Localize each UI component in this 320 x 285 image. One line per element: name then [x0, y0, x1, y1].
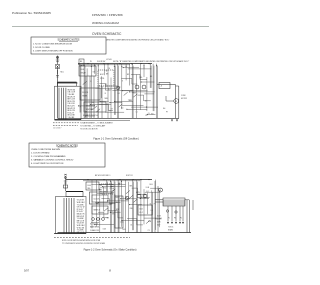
- figure 2 switch contact: [129, 195, 133, 198]
- figure 2 wire label Y: [118, 182, 121, 185]
- figure 2 node junction: [122, 220, 123, 221]
- figure 1 node junction: [121, 66, 122, 67]
- figure 1 node junction: [126, 109, 127, 110]
- figure 2 wire: [107, 182, 109, 193]
- svg-text:MDL: MDL: [105, 98, 108, 100]
- figure 1 node junction: [106, 86, 107, 87]
- EOC pin leads figure 2: [168, 206, 183, 222]
- figure 1 wire: [147, 114, 155, 116]
- figure 1 wire: [86, 115, 95, 117]
- figure 1 node junction: [150, 63, 151, 64]
- figure 2 node junction: [98, 202, 99, 203]
- figure 2 wire: [114, 182, 116, 233]
- terminal arrows figure 1: [171, 120, 178, 122]
- notes box 2 line 5: [31, 163, 64, 165]
- bottom note row 2 figure 2: [62, 242, 106, 245]
- figure 1 wire label BA: [105, 98, 108, 100]
- svg-text:NOTE: “B” DENOTES COMPONENTS M: NOTE: “B” DENOTES COMPONENTS MOUNTED ON …: [113, 60, 189, 63]
- figure 1 node junction: [100, 101, 101, 102]
- figure 1 wire: [97, 64, 99, 119]
- figure 2 node junction: [110, 181, 111, 182]
- figure 1 wire label LS: [91, 109, 94, 111]
- svg-text:8-4: 8-4: [92, 102, 94, 104]
- figure 2 node junction: [110, 186, 111, 187]
- figure 1 wire: [127, 108, 147, 110]
- figure 2 node junction: [140, 198, 141, 199]
- figure 1 wire label 8-4: [117, 93, 119, 95]
- figure 2 node junction: [99, 189, 100, 190]
- relay coil K3 figure 1: [142, 85, 146, 89]
- wire bottom bus figure 2: [58, 232, 192, 234]
- motor leads figure 1: [166, 96, 174, 101]
- figure 2 wire: [132, 182, 134, 231]
- figure 1 wire: [106, 85, 118, 87]
- figure 2 wire: [136, 182, 138, 233]
- figure 2 wire label P5: [148, 230, 150, 232]
- switch box figure 1: [84, 102, 106, 112]
- figure 1 node junction: [84, 65, 85, 66]
- figure 1 wire: [131, 64, 133, 119]
- figure 2 node junction: [120, 198, 121, 199]
- svg-text:Figure 1-1 Oven Schematic (Of: Figure 1-1 Oven Schematic (Off Condition…: [93, 138, 138, 141]
- figure 1 wire label V: [108, 68, 110, 70]
- figure 2 node junction: [141, 197, 142, 198]
- figure 2 wire label BU: [120, 183, 122, 185]
- door lock column figure 2: [115, 196, 123, 228]
- wire bottom bus figure 1: [55, 118, 180, 120]
- figure 2 wire label HSW: [95, 203, 99, 205]
- figure 1 wire: [118, 66, 120, 119]
- figure 1 wire label R: [132, 93, 136, 95]
- top labels row figure 2: [95, 175, 134, 177]
- figure 1 wire label 8-4: [127, 74, 130, 76]
- figure 1 node junction: [85, 116, 86, 117]
- figure 1 node junction: [141, 82, 142, 83]
- node bus junctions figure 2: [87, 179, 149, 180]
- svg-text:P1: P1: [168, 218, 170, 220]
- svg-text:TO EOC: TO EOC: [168, 227, 173, 229]
- figure 1 switch contact: [93, 106, 97, 109]
- figure 1 wire: [110, 78, 112, 119]
- svg-text:DLB: DLB: [103, 229, 106, 231]
- notes box 2 line 1: [31, 149, 60, 151]
- figure 2 switch contact: [104, 208, 108, 211]
- svg-text:DLB: DLB: [115, 197, 118, 199]
- figure 2 wire: [108, 200, 129, 202]
- svg-text:“B” COMPONENTS MOUNTED ON PRIN: “B” COMPONENTS MOUNTED ON PRINTED CIRCUI…: [62, 242, 106, 245]
- figure 2 switch contact: [146, 220, 150, 223]
- bottom wire labels mid figure 1: [80, 121, 113, 130]
- harness collar figure 1: [58, 82, 77, 86]
- svg-text:2. COOKING TIME PROGRAMMED: 2. COOKING TIME PROGRAMMED: [31, 155, 66, 158]
- svg-text:8-2 BK: 8-2 BK: [157, 218, 161, 220]
- figure 2 wire: [95, 224, 114, 226]
- svg-text:GY: GY: [111, 108, 114, 110]
- clock terminal labels figure 2: [90, 224, 100, 232]
- pilot circle B figure 2: [175, 211, 177, 213]
- figure 1 wire: [156, 66, 158, 119]
- svg-text:TO CONV FAN — TO OVEN LAMP: TO CONV FAN — TO OVEN LAMP: [80, 125, 105, 128]
- svg-text:WIRING DIAGRAM: WIRING DIAGRAM: [92, 21, 119, 25]
- svg-text:W: W: [90, 61, 92, 63]
- svg-text:RELAY: RELAY: [81, 72, 87, 75]
- figure 1 wire label L1: [128, 100, 132, 102]
- figure 1 wire: [122, 104, 144, 106]
- svg-text:OL: OL: [148, 113, 150, 115]
- figure 1 wire label GY: [86, 115, 88, 117]
- figure 2 wire: [128, 182, 130, 233]
- figure 1 wire: [94, 64, 96, 74]
- svg-text:N: N: [105, 93, 107, 95]
- figure 2 wire: [147, 193, 149, 215]
- figure 2 wire label GY: [148, 221, 151, 223]
- figure 1 switch contact: [124, 92, 128, 95]
- figure 1 node junction: [146, 107, 147, 108]
- svg-text:OVEN SCHEMATIC: OVEN SCHEMATIC: [92, 32, 122, 36]
- figure 2 wire: [151, 190, 153, 232]
- figure 1 wire: [84, 66, 86, 119]
- figure 1 node junction: [129, 91, 130, 92]
- figure 1 wire: [100, 76, 102, 98]
- control board box figure 1: [98, 70, 114, 86]
- svg-text:L1 N B: L1 N B: [106, 59, 112, 61]
- node L1 junction figure 1: [57, 82, 58, 83]
- right labels figure 2: [168, 227, 173, 232]
- wire top bus figure 2: [66, 180, 152, 181]
- schematic notes box 1: [31, 37, 106, 54]
- svg-text:REL: REL: [96, 203, 99, 205]
- figure 1 wire label MDL: [118, 87, 121, 89]
- svg-text:N B TCO: N B TCO: [126, 175, 134, 177]
- svg-text:BK W DOOR SW L1: BK W DOOR SW L1: [95, 175, 110, 177]
- relay contact box figure 2: [138, 205, 152, 215]
- figure 2 wire label DLB: [115, 197, 118, 199]
- svg-text:BK: BK: [80, 61, 83, 63]
- figure 2 wire: [145, 191, 161, 193]
- notes box 1 title: [58, 39, 80, 42]
- figure 1 harness wires: [59, 88, 66, 120]
- figure 2 wire: [113, 180, 115, 233]
- figure 1 node junction: [126, 66, 127, 67]
- figure 2 wire: [122, 220, 144, 222]
- svg-text:B: B: [160, 190, 161, 192]
- svg-text:3. VARIABLE COOKING CONTROL “B: 3. VARIABLE COOKING CONTROL “BROIL”: [31, 158, 74, 161]
- figure 2 switch contact: [111, 189, 115, 192]
- figure 2 wire: [142, 196, 150, 198]
- pilot lamp 2 figure 2: [97, 218, 100, 221]
- svg-text:CLEAN OFF: CLEAN OFF: [90, 229, 99, 232]
- figure 2 wire label BK: [122, 229, 125, 231]
- right bus pair figure 2: [185, 200, 193, 233]
- figure 1 switch contact: [83, 81, 87, 84]
- svg-text:DR: DR: [85, 111, 88, 113]
- figure 1 wire label P5: [106, 70, 108, 72]
- svg-text:5/97: 5/97: [24, 268, 30, 272]
- svg-text:P1: P1: [110, 188, 112, 190]
- figure 2 wire label V: [120, 222, 124, 224]
- figure 1 wire label P5: [144, 68, 146, 70]
- figure 2 node junction: [107, 200, 108, 201]
- right labels figure 1: [163, 95, 188, 113]
- wire L1 vertical figure 1: [57, 66, 59, 118]
- wire drop 4 figure 1: [97, 86, 99, 118]
- figure 1 switch contact: [119, 104, 123, 107]
- wire link to EOC figure 2: [155, 200, 163, 202]
- pilot circle A figure 2: [166, 210, 168, 212]
- figure 1 wire: [80, 66, 82, 113]
- figure 2 wire label DLB: [112, 211, 114, 213]
- figure 1 switch contact: [133, 94, 137, 97]
- figure 1 wire: [125, 64, 127, 81]
- figure 1 wire: [152, 64, 154, 112]
- svg-text:EOC: EOC: [103, 188, 107, 190]
- figure 1 wire: [131, 74, 147, 79]
- svg-text:8-6: 8-6: [163, 108, 165, 110]
- svg-text:4. LIGHT SWITCH ON POSITION: 4. LIGHT SWITCH ON POSITION: [31, 163, 64, 165]
- figure 1 wire: [100, 100, 109, 102]
- svg-text:CLOCK: CLOCK: [82, 92, 89, 94]
- figure 2 wire label MDL: [150, 184, 153, 186]
- figure 1 node junction: [98, 65, 99, 66]
- figure 2 switch contact: [133, 199, 137, 202]
- footer page number: [109, 268, 111, 272]
- figure 1 node junction: [144, 65, 145, 66]
- figure 2 node junction: [121, 181, 122, 182]
- svg-text:DLB: DLB: [122, 229, 125, 231]
- figure 2 wire: [117, 180, 119, 233]
- figure 2 wire: [111, 185, 126, 187]
- figure 1 wire: [79, 64, 81, 113]
- svg-text:DLB: DLB: [150, 184, 153, 186]
- svg-text:OVEN CONDITIONS SHOWN: OVEN CONDITIONS SHOWN: [31, 149, 60, 151]
- figure 2 wire: [91, 222, 99, 224]
- notes box 2 title: [56, 144, 78, 147]
- figure 1 wire label V: [110, 111, 112, 113]
- figure 1 node junction: [108, 62, 109, 65]
- figure 1 wire: [143, 64, 145, 78]
- harness collar figure 2: [66, 192, 83, 197]
- svg-text:N: N: [122, 80, 124, 82]
- figure 1 switch contact: [96, 109, 100, 112]
- figure 2 wire: [98, 202, 120, 204]
- wire drop 2 figure 1: [89, 76, 91, 118]
- svg-text:R: R: [80, 107, 82, 109]
- figure 2 wire: [108, 211, 124, 218]
- svg-text:M: M: [175, 101, 177, 103]
- svg-text:REL: REL: [139, 77, 142, 79]
- figure 2 wire: [132, 180, 134, 231]
- header publication number: [12, 11, 51, 15]
- svg-text:1. N.O.E. CONDITIONS SHOWN W/: 1. N.O.E. CONDITIONS SHOWN W/ DOOR: [33, 44, 73, 46]
- svg-text:REL: REL: [130, 208, 133, 210]
- svg-text:P7: P7: [166, 111, 168, 113]
- svg-text:EOC: EOC: [100, 74, 105, 76]
- svg-text:DLB: DLB: [140, 209, 143, 211]
- svg-text:LS: LS: [151, 210, 153, 212]
- oven lamp figure 2: [125, 196, 129, 200]
- svg-text:8-3 R: 8-3 R: [157, 221, 160, 223]
- figure 1 wire label REL: [85, 111, 88, 113]
- figure 2 wire: [100, 184, 126, 186]
- figure 1 wire label N: [90, 81, 92, 83]
- header model numbers: [92, 13, 124, 17]
- schematic notes box 2: [29, 143, 105, 167]
- figure 1 wire label 8-1: [99, 85, 101, 87]
- wire drop B figure 2: [157, 186, 159, 233]
- figure 2 wire: [158, 190, 160, 227]
- figure 2 wire: [125, 180, 127, 233]
- figure 1 wire code list: [68, 89, 76, 119]
- svg-text:K1-2: K1-2: [140, 212, 143, 214]
- svg-text:NOTE: DOOR SWITCH SHOWN WITH D: NOTE: DOOR SWITCH SHOWN WITH DOOR OPEN: [62, 240, 101, 242]
- svg-text:8-2 8-4 P3 P5 P7 8-6: 8-2 8-4 P3 P5 P7 8-6: [83, 115, 98, 117]
- figure 1 node junction: [78, 105, 79, 106]
- wire top bus figure 1: [78, 64, 152, 65]
- figure 1 wire: [150, 66, 152, 88]
- figure 1 wire: [83, 64, 85, 119]
- EOC lead labels figure 2: [157, 215, 161, 226]
- figure 2 wire: [140, 180, 142, 233]
- figure 1 wire: [123, 67, 139, 69]
- svg-text:BAKE BROIL: BAKE BROIL: [90, 226, 100, 229]
- figure 2 wire label 8-4: [130, 208, 133, 210]
- svg-text:B: B: [145, 100, 146, 102]
- wire drop 5 figure 1: [101, 86, 103, 118]
- figure 1 wire: [128, 64, 130, 86]
- figure 1 wire: [149, 64, 151, 88]
- svg-text:8-3: 8-3: [121, 108, 123, 110]
- figure 1 wire label LS: [148, 113, 150, 115]
- figure 2 wire: [127, 219, 143, 225]
- figure 2 node junction: [110, 212, 111, 213]
- svg-text:TCO: TCO: [120, 222, 124, 224]
- wire drop 1 figure 1: [85, 76, 87, 118]
- figure 1 node junction: [122, 90, 123, 91]
- svg-text:HSW: HSW: [136, 192, 140, 194]
- figure 2 wire: [91, 184, 113, 186]
- svg-text:1. DOOR OPENED: 1. DOOR OPENED: [31, 153, 50, 155]
- control board box figure 2: [101, 184, 113, 194]
- svg-text:8: 8: [109, 268, 111, 272]
- figure 2 wire label OL: [130, 224, 132, 226]
- figure 2 wire label 8-2: [136, 192, 140, 194]
- figure 2 wire: [95, 180, 97, 227]
- figure 2 wire: [103, 187, 105, 212]
- figure 2 wire label HSW: [96, 203, 99, 205]
- figure 1 node junction: [114, 101, 115, 102]
- figure 2 harness outline: [56, 197, 87, 234]
- svg-text:V: V: [109, 205, 111, 207]
- svg-text:DLB: DLB: [146, 187, 149, 189]
- figure 1 wire label 8-3: [108, 89, 110, 91]
- notes box 1 line 1: [33, 44, 73, 46]
- notes box 1 line 2: [33, 47, 51, 49]
- notes box 2 line 2: [31, 153, 50, 155]
- pilot lamp 3 figure 2: [102, 218, 105, 221]
- figure 1 wire label OL: [150, 76, 153, 78]
- figure 1 wire: [90, 104, 111, 106]
- figure 2 wire: [110, 180, 112, 233]
- figure 1 wire: [146, 77, 148, 111]
- figure 1 wire: [90, 64, 92, 119]
- node bus junctions figure 1: [87, 63, 149, 64]
- figure 2 switch contact: [126, 190, 130, 193]
- figure 2 wire label BR: [155, 218, 157, 220]
- figure 2 wire label N: [107, 217, 110, 219]
- svg-text:CLOCK: CLOCK: [94, 198, 101, 200]
- figure 2 wire: [143, 189, 145, 224]
- harness terminal strip figure 2: [54, 233, 86, 235]
- svg-text:N: N: [90, 81, 92, 83]
- svg-text:Figure 1-2 Oven Schematic (On: Figure 1-2 Oven Schematic (On / Bake Con…: [84, 248, 137, 251]
- svg-text:Publication No. 5995446485: Publication No. 5995446485: [12, 11, 51, 15]
- svg-text:CONV: CONV: [181, 95, 187, 97]
- notes box 2 line 4: [31, 158, 74, 161]
- figure 2 wire: [106, 180, 108, 193]
- terminal row labels figure 1: [83, 115, 98, 117]
- figure 1 wire label LS: [106, 73, 109, 75]
- relay coil K2 figure 2: [137, 194, 141, 198]
- figure 1 wire: [153, 66, 155, 112]
- svg-text:W: W: [106, 70, 108, 72]
- door lock plug symbol: [56, 65, 64, 78]
- svg-text:MOTOR: MOTOR: [181, 98, 188, 100]
- svg-text:R: R: [144, 68, 146, 70]
- top labels row figure 1: [80, 59, 112, 63]
- figure 1 wire: [114, 66, 116, 115]
- figure 1 wire: [144, 93, 154, 95]
- figure 2 wire: [118, 182, 120, 233]
- wire right link figure 1: [157, 84, 176, 86]
- figure 2 node junction: [99, 184, 100, 185]
- footer revision date: [24, 268, 30, 272]
- figure 2 wire: [98, 212, 108, 217]
- figure 2 wire: [101, 198, 115, 203]
- figure 1 wire label 8-4: [92, 102, 94, 104]
- figure 2 wire label P3: [146, 191, 148, 193]
- figure 2 wire: [150, 187, 162, 189]
- svg-text:HSW: HSW: [132, 93, 136, 95]
- EOC board box figure 2: [163, 198, 185, 206]
- figure 1 wire: [140, 64, 142, 110]
- figure 1 wire: [132, 66, 134, 119]
- figure 2 wire: [140, 198, 149, 200]
- figure 1 wire: [121, 64, 123, 110]
- convection motor M1 figure 1: [174, 99, 179, 104]
- note line inside figure 1: [113, 60, 189, 63]
- figure 1 wire: [79, 105, 95, 107]
- figure 1 wire: [156, 64, 158, 119]
- figure 2 wire label 8-3: [146, 187, 149, 189]
- notes box 2 line 3: [31, 155, 66, 158]
- figure 1 wire label B: [80, 107, 82, 109]
- figure 1 wire: [105, 111, 124, 113]
- figure 2 wire: [97, 193, 112, 195]
- svg-text:DLB: DLB: [88, 185, 92, 187]
- figure 1 wire: [136, 75, 138, 119]
- bake element figure 2: [159, 188, 163, 192]
- svg-text:BR: BR: [127, 74, 130, 76]
- figure 1 node junction: [109, 102, 110, 103]
- svg-text:J1: J1: [161, 86, 163, 88]
- notes box 1 line 3: [33, 50, 73, 52]
- svg-text:2. DOOR CLOSED: 2. DOOR CLOSED: [33, 47, 51, 49]
- svg-text:REL: REL: [130, 186, 133, 188]
- wire drop A figure 2: [154, 181, 156, 233]
- junction box figure 1: [159, 83, 170, 89]
- relay coil K2 figure 1: [135, 85, 139, 89]
- svg-text:8-1 W: 8-1 W: [157, 215, 161, 217]
